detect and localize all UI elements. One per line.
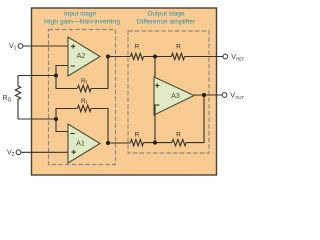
A1 noninverting input + [72,150,76,154]
svg-text:R: R [135,44,140,51]
input stage dashed box [49,30,116,165]
resistor R1 (top) [131,53,144,59]
A1 inverting input - [70,133,74,135]
node A2 output junction [106,55,110,59]
wire node X up to A2 inverting input [56,66,68,76]
outer schematic box [32,8,217,175]
svg-text:High gain—Non-inverting: High gain—Non-inverting [44,19,120,26]
svg-text:A1: A1 [76,139,85,148]
resistor RF2 (A1 feedback) [78,105,92,111]
terminal VREF [223,54,228,59]
wire R2 to VREF terminal [185,56,224,58]
resistor R3 (bottom) [131,139,144,145]
wire node Y up to RF2 [56,109,77,120]
A3 noninverting input + [155,83,159,87]
resistor RG (vertical, left margin) [15,76,20,120]
A3 inverting input - [155,104,159,106]
terminal VOUT [222,93,227,98]
node Y junction [54,117,58,121]
terminal V2 [16,150,21,155]
node VOUT junction [202,93,206,97]
wire node X down to RF1 [56,76,77,89]
wire V2 to A1 + input [21,151,68,153]
node X junction [54,74,58,78]
resistor R2 (top, to VREF) [172,53,185,59]
svg-text:V2: V2 [7,150,15,158]
A2 noninverting input + [71,44,75,48]
svg-text:A2: A2 [77,51,86,60]
op-amp A1 [68,124,100,163]
A2 inverting input - [71,65,75,67]
op-amp A2 [68,37,100,76]
wire node Y down to A1 inverting input [56,119,68,132]
wire bottom rail A1 out to R3 [108,142,131,144]
terminal V1 [18,44,23,49]
wire RF1 right end up to A2 output node [91,57,108,89]
resistor RF1 (A2 feedback) [78,85,92,91]
wire top rail A2 out to R1 [108,56,131,58]
svg-text:Difference amplifier: Difference amplifier [137,19,196,26]
svg-text:R: R [176,131,181,138]
node A1 output junction [106,141,110,145]
wire R4 right end up to VOUT node [186,95,204,143]
wire A3 output to VOUT terminal [194,94,222,96]
svg-text:A3: A3 [171,91,180,100]
node bottom-mid junction [153,141,157,145]
svg-text:V1: V1 [9,43,17,51]
op-amp A3 [154,77,194,115]
wire RG bottom to node Y [18,118,56,120]
svg-text:VOUT: VOUT [230,91,244,100]
svg-text:R: R [135,131,140,138]
svg-text:VREF: VREF [231,52,245,61]
svg-text:Output stage: Output stage [147,11,185,18]
wire bottom node up to A3 - input [154,105,155,143]
svg-text:Input stage: Input stage [64,11,97,18]
wire R1 to top node [144,56,172,58]
wire V1 to A2 + input [23,45,68,47]
svg-text:R: R [176,44,181,51]
output stage dashed box [128,31,209,153]
resistor R4 (bottom feedback) [172,139,186,145]
wire R3 to bottom node [144,142,173,144]
node top-mid junction [153,55,157,59]
wire RG top to node X [18,75,56,77]
wire RF2 right end down to A1 output node [91,109,108,144]
svg-text:RG: RG [3,95,12,103]
wire top node down to A3 + input [154,57,155,87]
